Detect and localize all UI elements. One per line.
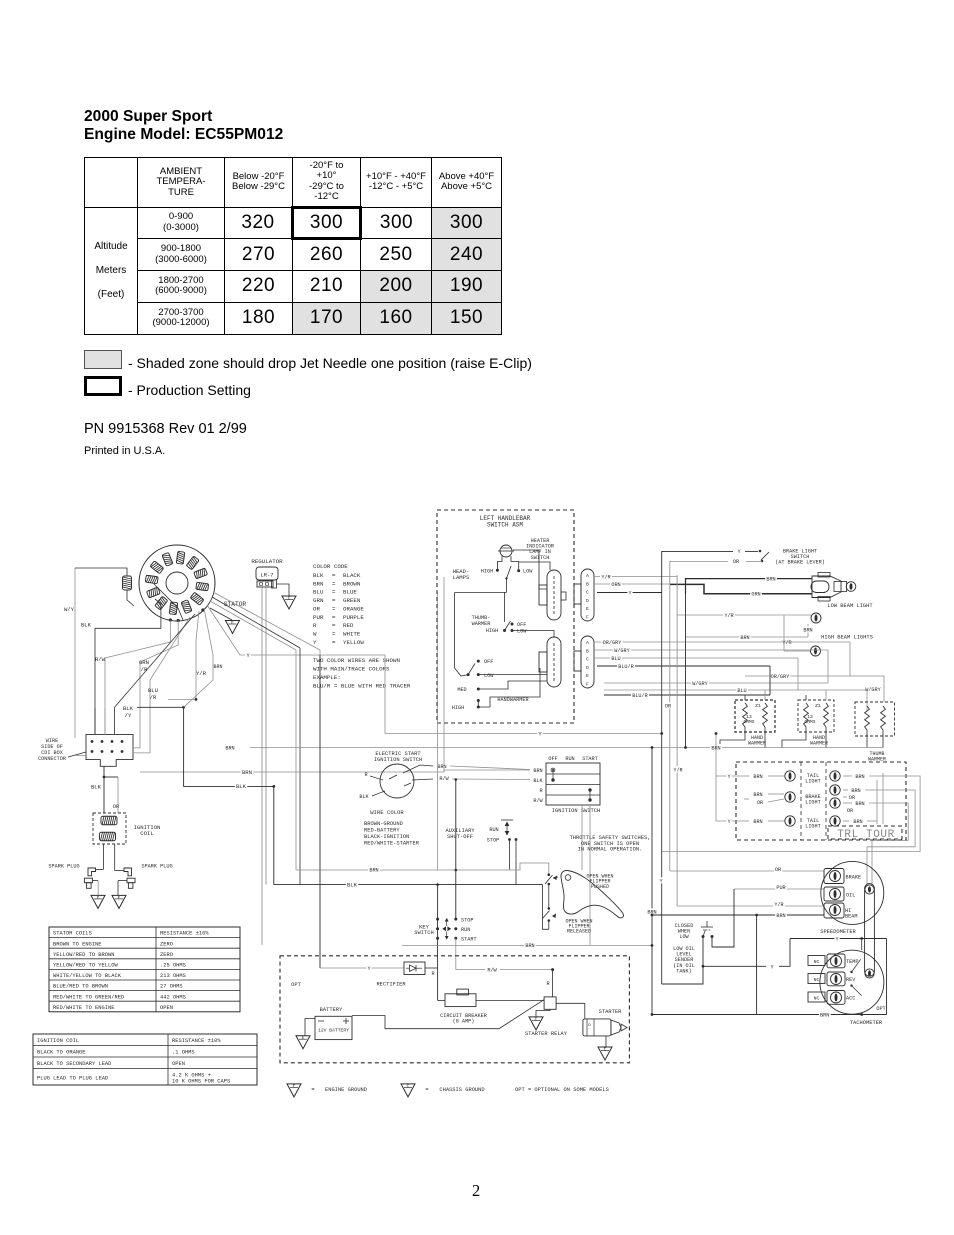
svg-text:WARMER: WARMER [748,740,766,746]
svg-text:442 OHMS: 442 OHMS [160,994,186,1000]
svg-text:STATOR COILS: STATOR COILS [53,931,92,937]
stator [139,545,246,622]
battery [305,1007,352,1040]
svg-text:START: START [461,936,477,942]
svg-text:WARMER: WARMER [810,740,828,746]
svg-text:HIGH: HIGH [486,628,498,634]
high beam bulb lower [811,646,821,656]
svg-text:HANDWARMER: HANDWARMER [497,697,528,703]
svg-text:GREEN: GREEN [343,597,361,604]
connector strip lower A-F [574,636,594,688]
svg-text:BRN: BRN [853,819,862,825]
svg-text:12V BATTERY: 12V BATTERY [318,1028,349,1034]
svg-text:BRN: BRN [851,788,860,794]
svg-text:BRN: BRN [766,576,775,582]
svg-text:OHMS: OHMS [804,719,815,725]
key switch [414,917,476,942]
wire BLU/R left [150,617,190,740]
svg-text:REV: REV [846,977,856,983]
svg-text:/R: /R [150,694,157,701]
ground C regulator [276,584,289,596]
wire BRN to low beam [686,579,813,594]
handwarmer switch [452,592,547,711]
svg-text:o: o [588,1023,591,1028]
svg-text:CHASSIS GROUND: CHASSIS GROUND [439,1087,484,1093]
tachometer [808,950,886,1026]
bus wire BRN upper [685,579,687,748]
leads to ignition switch table [450,766,530,770]
svg-text:RECTIFIER: RECTIFIER [376,982,406,988]
svg-text:R/W: R/W [95,656,106,663]
svg-text:ORANGE: ORANGE [343,605,364,612]
heater indicator lamp [498,538,554,561]
svg-text:BRN: BRN [855,774,864,780]
svg-text:YELLOW/RED TO BROWN: YELLOW/RED TO BROWN [53,952,114,958]
chassis ground legend [401,1084,485,1097]
svg-text:BRN: BRN [525,943,534,949]
svg-text:E: E [586,673,589,679]
svg-text:BLUE: BLUE [343,589,357,596]
svg-text:PUSHED: PUSHED [591,884,609,890]
svg-text:BLK: BLK [81,622,92,629]
svg-text:F: F [586,682,589,688]
svg-text:IGNITION COIL: IGNITION COIL [37,1038,79,1044]
svg-text:E: E [293,1084,296,1089]
svg-text:CONNECTOR: CONNECTOR [38,756,66,762]
wire BRN left [184,608,213,707]
svg-text:BRN: BRN [437,764,446,770]
svg-text:W/GRY: W/GRY [865,687,881,693]
svg-text:SHUT-OFF: SHUT-OFF [447,834,473,840]
svg-text:SPARK PLUG: SPARK PLUG [48,864,79,870]
svg-text:Y: Y [770,964,774,970]
ground E spark plug right [112,895,126,908]
wire Y to brake switch [662,551,733,592]
svg-text:C: C [586,590,589,596]
svg-text:BLK: BLK [313,572,324,579]
svg-text:D: D [586,665,589,671]
svg-text:ACC: ACC [846,996,855,1002]
svg-text:BLK: BLK [236,783,247,790]
svg-text:LIGHT: LIGHT [805,800,821,806]
wire Y tachometer [790,938,887,940]
headlamp hi-lo switch [453,550,550,592]
svg-text:B: B [586,581,589,587]
svg-text:IGNITION SWITCH: IGNITION SWITCH [552,808,601,814]
svg-text:STARTER RELAY: STARTER RELAY [525,1031,568,1037]
ground E battery [296,1036,310,1049]
svg-text:E: E [302,1036,305,1041]
svg-text:ZERO: ZERO [160,952,173,958]
legend production box [84,376,122,396]
tail light cluster box [736,762,906,840]
svg-text:OR: OR [775,867,781,873]
svg-text:LAMPS: LAMPS [453,574,470,581]
svg-text:W: W [313,630,317,637]
low beam bulb [846,582,856,592]
svg-text:MED: MED [457,687,466,693]
svg-text:4.2 K OHMS +: 4.2 K OHMS + [172,1073,211,1079]
wire R/W relay [456,969,485,971]
svg-text:ENGINE GROUND: ENGINE GROUND [325,1087,367,1093]
svg-text:.1 OHMS: .1 OHMS [172,1050,195,1056]
starter relay [525,997,585,1037]
svg-text:OR: OR [113,804,119,810]
svg-text:LR-7: LR-7 [261,573,274,579]
svg-text:OPT = OPTIONAL ON SOME MODE: OPT = OPTIONAL ON SOME MODELS [515,1087,609,1093]
svg-text:=: = [332,597,336,604]
svg-text:=: = [332,622,336,629]
svg-text:RESISTANCE ±10%: RESISTANCE ±10% [160,931,209,937]
svg-text:213 OHMS: 213 OHMS [160,973,186,979]
ground E starter [598,1047,612,1060]
wire OR speedometer [670,870,824,872]
svg-text:STARTER: STARTER [599,1009,622,1015]
hand warmer resistor block 2 [782,690,834,748]
svg-text:COLOR CODE: COLOR CODE [313,563,348,570]
svg-text:WARMER: WARMER [472,621,491,627]
svg-text:WIRE COLOR: WIRE COLOR [370,809,404,816]
svg-text:=: = [332,580,336,587]
svg-text:=: = [332,614,336,621]
center bus wires [320,577,444,968]
svg-text:=: = [332,605,336,612]
svg-text:SWITCH: SWITCH [531,555,550,561]
svg-text:OFF: OFF [484,659,493,665]
wire BLK below connector [103,766,105,813]
svg-text:BRN: BRN [369,868,378,874]
svg-text:BLU: BLU [737,688,746,694]
svg-text:=: = [332,589,336,596]
bus wire OR [669,561,671,871]
svg-text:RED/WHITE TO GREEN/RED: RED/WHITE TO GREEN/RED [53,994,124,1000]
svg-text:E: E [97,896,100,901]
wire BLU/R run [769,666,771,695]
svg-text:E: E [586,606,589,612]
brake light bulb [744,791,821,806]
color code legend [313,563,411,690]
svg-text:TEMP: TEMP [846,959,858,965]
svg-text:TWO COLOR WIRES ARE SHOWN: TWO COLOR WIRES ARE SHOWN [313,657,400,664]
jetting table [84,157,502,335]
throttle safety switch lower [543,885,557,930]
svg-text:RED-BATTERY: RED-BATTERY [364,828,400,834]
ground E stator [210,608,232,620]
svg-text:BRN: BRN [225,745,234,751]
throttle safety switch upper [545,873,558,909]
svg-text:SWITCH ASM: SWITCH ASM [487,521,523,528]
svg-text:.25 OHMS: .25 OHMS [160,963,186,969]
wire color legend [364,809,420,847]
ignition coil resistance table [33,1034,257,1085]
svg-text:BLK: BLK [359,794,369,800]
bus wire Y [661,593,663,985]
wire BRN warmers [250,747,883,749]
svg-text:BLACK TO SECONDARY LEAD: BLACK TO SECONDARY LEAD [37,1061,111,1067]
svg-text:PURPLE: PURPLE [343,614,364,621]
battery cables [352,1000,544,1029]
svg-text:PLUG LEAD TO PLUG LEAD: PLUG LEAD TO PLUG LEAD [37,1076,108,1082]
wire Y/R left [168,611,199,699]
wire BLK horizontal [184,707,274,884]
trailer light bulbs [830,771,906,826]
svg-text:YELLOW: YELLOW [343,639,364,646]
svg-text:SPARK PLUG: SPARK PLUG [141,864,172,870]
svg-text:IN NORMAL OPERATION.: IN NORMAL OPERATION. [578,847,643,853]
engine ground legend [287,1084,367,1097]
stator lead inductor [75,568,134,606]
wire R rectifier [425,967,438,969]
svg-text:RELEASED: RELEASED [567,929,591,935]
svg-text:A: A [586,640,589,646]
svg-text:BRN: BRN [753,819,762,825]
svg-text:BRN: BRN [213,664,222,670]
wire BLK left [95,599,161,734]
wire BLU run [797,658,799,690]
svg-text:BLUE/RED TO BROWN: BLUE/RED TO BROWN [53,984,108,990]
wire OR/GRY to thumb warmer [850,642,884,702]
connector entry wires [75,707,150,755]
svg-text:RED/WHITE TO ENGINE: RED/WHITE TO ENGINE [53,1005,114,1011]
svg-text:=: = [332,639,336,646]
svg-text:C: C [288,596,291,601]
svg-text:C: C [535,1017,538,1022]
svg-text:13: 13 [746,714,752,720]
svg-text:NC: NC [814,996,820,1002]
svg-text:BRN: BRN [740,635,749,641]
svg-text:BRN: BRN [803,628,812,634]
svg-text:BRN: BRN [753,792,762,798]
PN line [84,421,247,437]
svg-text:HIGH BEAM LIGHTS: HIGH BEAM LIGHTS [821,635,873,641]
svg-text:BROWN TO ENGINE: BROWN TO ENGINE [53,941,102,947]
svg-text:OPT: OPT [291,982,301,988]
svg-text:13: 13 [807,714,813,720]
svg-text:OPEN: OPEN [172,1061,185,1067]
svg-text:BRN: BRN [313,580,324,587]
svg-text:WHITE/YELLOW TO BLACK: WHITE/YELLOW TO BLACK [53,973,122,979]
svg-text:GRN: GRN [313,597,324,604]
wire BRN bottom [402,945,652,947]
key switch wires [455,780,457,920]
wire W/GRY upper [594,649,828,651]
svg-text:E: E [604,1047,607,1052]
wire ORN [594,583,670,585]
svg-text:HIGH: HIGH [452,705,464,711]
stator coils resistance table [49,927,240,1012]
svg-text:BRN: BRN [776,913,785,919]
svg-text:/Y: /Y [125,712,132,719]
svg-text:Y/R: Y/R [724,613,733,619]
svg-text:OR: OR [847,808,853,814]
headlamp capsule lower [539,637,561,687]
svg-text:BLK: BLK [347,881,358,888]
starter motor [583,1003,627,1047]
svg-text:BEAM: BEAM [845,914,857,920]
ground C starter relay [529,1017,543,1030]
wire Y from stator [207,605,662,734]
wire R/W left [105,621,170,735]
wire BRN horizontal [140,771,444,773]
svg-text:PUR: PUR [776,885,785,891]
svg-text:R: R [539,788,542,794]
tail light bulb 2 [744,816,821,830]
svg-text:BLK: BLK [533,778,543,784]
svg-text:GRN: GRN [139,659,149,666]
tail cluster wrap wires [662,776,920,884]
svg-text:R: R [546,981,549,987]
svg-text:LOW: LOW [679,934,689,940]
svg-text:BLK: BLK [91,784,102,791]
wire OR to brake switch [670,560,728,562]
ignition coil [93,813,160,844]
svg-text:RUN: RUN [461,927,470,933]
wire GRN/R [140,621,178,741]
svg-text:BRN: BRN [820,1012,829,1018]
bus wire Y/R [676,575,678,906]
svg-text:(8 AMP): (8 AMP) [453,1018,475,1024]
svg-text:BLU/R: BLU/R [632,693,648,699]
svg-text:LIGHT: LIGHT [805,779,821,785]
svg-text:COIL: COIL [140,830,153,837]
svg-text:R/W: R/W [533,798,543,804]
svg-text:C: C [407,1084,410,1089]
svg-text:E: E [118,896,121,901]
rectifier [320,962,425,988]
svg-text:WITH MAIN/TRACE COLORS: WITH MAIN/TRACE COLORS [313,666,390,673]
spark plug left [48,844,103,895]
svg-text:Y/R: Y/R [774,902,783,908]
svg-text:=: = [425,1087,428,1093]
svg-text:PUR: PUR [313,614,324,621]
wire GRN thick [670,584,812,593]
svg-text:ORN: ORN [611,582,620,588]
connector strip upper A-F [574,569,594,621]
wire BRN throttle [296,863,549,874]
svg-text:27 OHMS: 27 OHMS [160,984,183,990]
title [84,108,283,144]
svg-text:Y/R: Y/R [782,640,791,646]
svg-text:OR/GRY: OR/GRY [771,674,791,680]
svg-text:STATOR: STATOR [224,601,247,608]
svg-text:OR: OR [313,605,320,612]
svg-text:Y: Y [313,639,317,646]
svg-text:HIGH: HIGH [481,569,493,575]
svg-text:RED/WHITE-STARTER: RED/WHITE-STARTER [364,841,420,847]
svg-text:OR/GRY: OR/GRY [603,640,623,646]
svg-text:OFF: OFF [548,756,557,762]
svg-text:Y/R: Y/R [196,670,207,677]
svg-text:R/W: R/W [439,776,449,782]
svg-text:(AT BRAKE LEVER): (AT BRAKE LEVER) [775,559,825,565]
svg-text:=: = [311,1087,314,1093]
legend shaded box [84,350,122,369]
wire BRN speedometer [652,914,824,916]
brake light switch [761,552,769,560]
wire Y/R speedometer [677,905,824,907]
low oil level sender [662,889,734,984]
svg-text:EXAMPLE:: EXAMPLE: [313,674,341,681]
wire W/GRY run [827,650,829,683]
svg-text:BROWN: BROWN [343,580,361,587]
svg-text:OIL: OIL [846,893,855,899]
wire BRN tachometer bottom [652,1014,887,1016]
ignition switch table [533,756,600,814]
svg-text:A: A [586,573,589,579]
svg-text:10 K OHMS FOR CAPS: 10 K OHMS FOR CAPS [172,1079,230,1085]
thumb warmer resistor block [855,702,895,762]
svg-text:BRN: BRN [242,769,252,776]
svg-text:OHMS: OHMS [743,719,754,725]
svg-text:OR: OR [733,559,739,565]
svg-text:R: R [364,772,367,778]
wire Y upper [597,592,662,594]
svg-text:Y/R: Y/R [673,768,682,774]
svg-text:LOW: LOW [484,673,494,679]
wire Y sender output [703,965,766,967]
svg-text:NC: NC [814,977,820,983]
wire Y/R upper [594,576,677,578]
svg-text:BLU: BLU [313,589,324,596]
svg-text:W/Y: W/Y [64,606,75,613]
svg-text:OFF: OFF [517,622,526,628]
svg-text:TANK): TANK) [676,968,692,974]
svg-text:NC: NC [814,959,820,965]
page number [472,1181,480,1201]
tail light bulb 1 [744,771,821,785]
regulator leads [261,587,263,945]
svg-text:OPEN: OPEN [160,1005,173,1011]
svg-text:STOP: STOP [461,917,473,923]
wire BRN high beam [686,636,809,638]
throttle flipper shape [561,870,624,917]
svg-text:W/GRY: W/GRY [692,681,708,687]
ignition switch table drops [581,805,583,870]
svg-text:TACHOMETER: TACHOMETER [850,1020,883,1026]
svg-text:=: = [332,572,336,579]
optional electric start box [280,956,629,1063]
svg-text:REGULATOR: REGULATOR [251,558,283,565]
svg-text:W/GRY: W/GRY [614,648,630,654]
spark plug right [115,844,173,895]
svg-text:BLACK: BLACK [343,572,361,579]
svg-text:Y/R: Y/R [601,574,610,580]
svg-text:LIGHT: LIGHT [805,824,821,830]
svg-text:Z1: Z1 [755,703,761,709]
speedometer [820,861,884,935]
electric start ignition switch [359,751,449,800]
svg-text:OPT: OPT [876,1006,885,1012]
svg-text:B: B [586,648,589,654]
svg-text:BLACK TO ORANGE: BLACK TO ORANGE [37,1050,86,1056]
auxiliary shut-off switch [445,820,517,885]
svg-text:D: D [586,598,589,604]
svg-text:YELLOW/RED TO YELLOW: YELLOW/RED TO YELLOW [53,963,118,969]
svg-text:OR: OR [665,704,671,710]
svg-text:R: R [313,622,317,629]
speedometer illumination capsule [865,884,875,979]
svg-text:BLU: BLU [611,656,620,662]
svg-text:=: = [332,630,336,637]
svg-text:IGNITION SWITCH: IGNITION SWITCH [374,757,423,763]
svg-text:BLU: BLU [148,687,158,694]
svg-text:C: C [586,657,589,663]
wire BLK/Y [115,614,196,707]
thumbwarmer switch [472,592,554,637]
svg-text:SWITCH: SWITCH [414,930,433,936]
svg-text:LOW BEAM LIGHT: LOW BEAM LIGHT [827,603,873,609]
svg-text:R: R [431,971,434,977]
